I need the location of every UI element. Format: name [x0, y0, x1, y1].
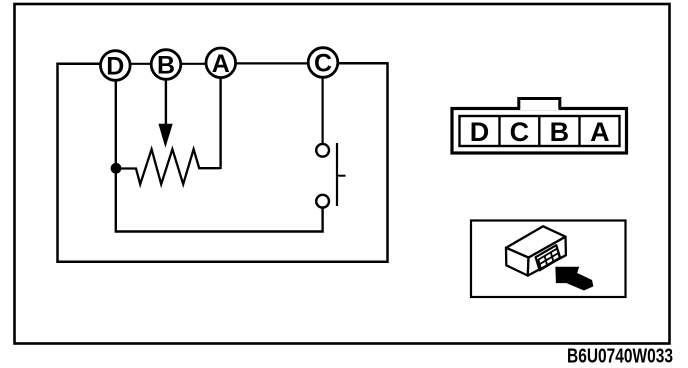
wire A-C	[236, 62, 308, 64]
pin D	[470, 117, 490, 147]
svg-text:A: A	[212, 50, 230, 78]
pin C	[510, 117, 530, 147]
resistor (variable)	[121, 149, 221, 184]
connector pinout outer shell	[452, 109, 627, 154]
figure number B6U0740W033	[567, 345, 673, 368]
wire bottom return (junction to switch)	[116, 168, 323, 232]
wire D down to junction	[115, 80, 117, 168]
svg-text:B6U0740W033: B6U0740W033	[567, 345, 673, 368]
pointer arrow	[556, 267, 593, 290]
relay module body	[506, 226, 566, 275]
pin A	[590, 117, 610, 147]
svg-text:A: A	[590, 117, 610, 147]
switch contact bottom	[316, 195, 329, 208]
terminal C	[308, 48, 338, 78]
switch actuator bar	[337, 143, 346, 206]
wire C down to switch	[322, 77, 324, 144]
svg-text:B: B	[550, 117, 570, 147]
connector pin grid	[460, 116, 620, 146]
wire D-B	[131, 63, 151, 65]
pin B	[550, 117, 570, 147]
terminal A	[206, 48, 236, 78]
wire B-A	[181, 63, 206, 65]
module outline box	[58, 63, 388, 262]
terminal D	[101, 51, 131, 81]
relay connector socket	[536, 245, 561, 270]
wiper arrow from B	[159, 79, 172, 146]
junction dot	[111, 163, 122, 174]
svg-text:C: C	[314, 50, 332, 78]
svg-text:D: D	[106, 53, 124, 81]
svg-text:B: B	[157, 52, 175, 80]
svg-text:C: C	[510, 117, 530, 147]
connector locking tab	[519, 99, 560, 111]
terminal B	[151, 50, 181, 80]
svg-text:D: D	[470, 117, 490, 147]
relay illustration box	[471, 221, 626, 298]
wire A down to resistor	[219, 78, 221, 169]
switch contact top	[316, 144, 329, 157]
